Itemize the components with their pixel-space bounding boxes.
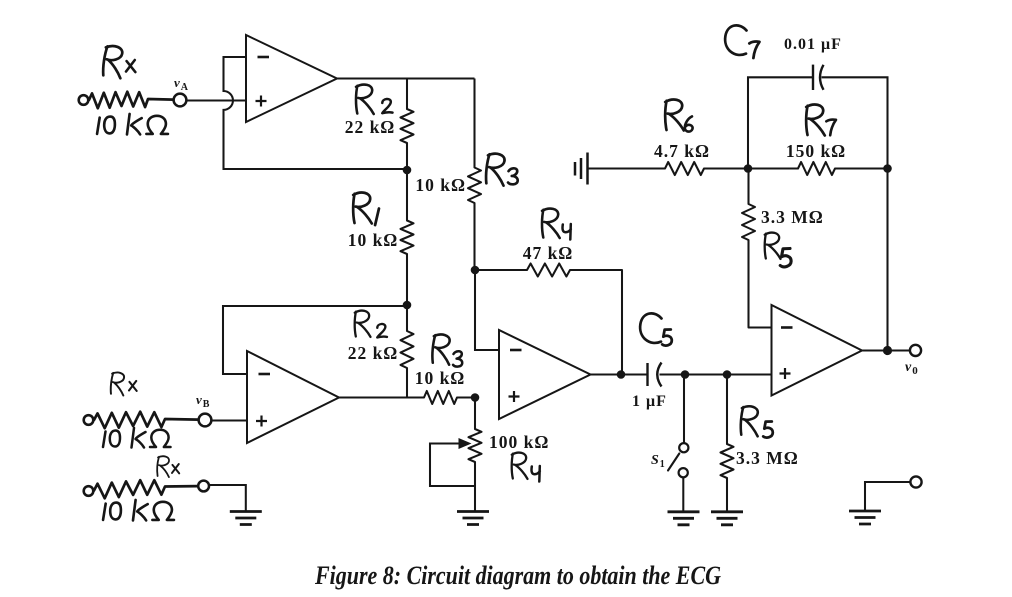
svg-text:47 kΩ: 47 kΩ (523, 243, 574, 263)
label R5 bottom (740, 406, 760, 437)
resistor R5 (3.3 M) top (742, 169, 772, 328)
svg-text:0.01 μF: 0.01 μF (784, 36, 842, 53)
switch S1 (683, 375, 685, 443)
node U4 output (883, 346, 892, 355)
ground (reference input) (230, 512, 262, 525)
wire U1 feedback with hop (224, 57, 408, 169)
terminal input B (84, 415, 94, 425)
terminal input ref (84, 486, 94, 496)
resistor R1 (10 k) (401, 170, 414, 305)
label R7 (806, 105, 825, 136)
node R3/R4/U3- junction (471, 266, 480, 275)
resistor R3 (10 k) top (468, 79, 481, 271)
op-amp U4 (772, 305, 863, 396)
potentiometer R4 (100 k) (469, 398, 482, 512)
ground (R5) (711, 512, 743, 525)
label R1 (353, 193, 372, 224)
capacitor C7 (0.01 uF) (812, 65, 814, 90)
svg-text:4.7 kΩ: 4.7 kΩ (654, 141, 710, 161)
wire C7 right column down to U4 output (822, 77, 888, 350)
svg-text:22 kΩ: 22 kΩ (348, 343, 399, 363)
svg-text:10 kΩ: 10 kΩ (348, 230, 399, 250)
terminal v0 (910, 345, 921, 356)
label Rx (input B) (110, 372, 126, 396)
label Rx (input A) (102, 45, 125, 78)
wire C7 left column (748, 77, 813, 168)
wire C5 to U4 + input (660, 373, 772, 375)
svg-text:1 μF: 1 μF (632, 393, 667, 410)
svg-text:3.3 MΩ: 3.3 MΩ (761, 207, 824, 227)
label R3 bottom (431, 334, 451, 365)
wire U4 output to v0 (862, 349, 910, 351)
label R3 top (485, 153, 507, 186)
svg-text:v0: v0 (905, 360, 919, 377)
label C5 (640, 313, 661, 343)
wire bottom-right terminal to ground (865, 482, 910, 511)
label R2 bottom (355, 311, 371, 337)
wire U3 output (591, 373, 648, 375)
wire vB to U2 + input (212, 419, 248, 421)
label R5 top (765, 233, 781, 259)
wire vA to U1 + input (187, 99, 247, 101)
label 10 kOhm (input B) (103, 428, 171, 448)
ground (sideways, R6) (575, 153, 588, 185)
svg-text:vA: vA (174, 75, 189, 93)
svg-text:150 kΩ: 150 kΩ (786, 141, 846, 161)
node after C5 (681, 370, 690, 379)
label C7 (725, 25, 746, 55)
op-amp U2 (247, 351, 339, 443)
terminal input A (79, 95, 89, 105)
pot wiper short (430, 444, 475, 487)
label R6 (665, 100, 684, 131)
node R7 right junction (883, 164, 892, 173)
op-amp U1 (246, 35, 337, 122)
capacitor C5 (1 uF) (646, 363, 648, 386)
wire U2 feedback to R1/R2 node (223, 306, 407, 374)
ground (S1) (668, 512, 700, 525)
label Rx (input ref) (157, 456, 171, 477)
svg-text:vB: vB (196, 392, 210, 410)
node U3 + input (471, 393, 480, 402)
wire R3/R4 node to U3 - input (475, 270, 499, 350)
node vA terminal (174, 94, 187, 107)
label 10 kOhm (input A) (97, 114, 168, 134)
svg-text:S1: S1 (651, 453, 666, 470)
wire ref terminal to ground (209, 485, 246, 511)
svg-text:100 kΩ: 100 kΩ (489, 432, 549, 452)
resistor R2 (22 k) top (401, 79, 414, 171)
terminal bottom-right (910, 476, 921, 487)
svg-text:22 kΩ: 22 kΩ (345, 117, 396, 137)
ground (pot) (457, 512, 489, 525)
resistor R5 (3.3 M) bottom (721, 375, 734, 512)
resistor Rx (input A) (89, 92, 173, 109)
label R4 pot (512, 453, 528, 479)
resistor R2 (22 k) bottom (401, 305, 414, 398)
resistor R4 (47 k) feedback (475, 264, 622, 375)
svg-text:10 kΩ: 10 kΩ (415, 175, 466, 195)
resistor Rx (reference) (94, 480, 197, 498)
svg-text:Figure 8: Circuit diagram to o: Figure 8: Circuit diagram to obtain the … (314, 561, 721, 590)
op-amp U3 (499, 330, 591, 419)
resistor R7 (150 k) (748, 162, 888, 175)
resistor R3 (10 k) bottom + wire U2 out (339, 391, 475, 404)
svg-text:3.3 MΩ: 3.3 MΩ (736, 448, 799, 468)
node R2/R1 junction (403, 166, 412, 175)
label 10 kOhm (input ref) (103, 500, 174, 520)
label R4 feedback (542, 209, 560, 238)
node vB terminal (199, 414, 212, 427)
node R6/R7/C7/R5 junction (744, 164, 753, 173)
svg-text:10 kΩ: 10 kΩ (415, 368, 466, 388)
node R5 top-of-branch (723, 370, 732, 379)
label R2 top (356, 85, 374, 114)
node U3 output (617, 370, 626, 379)
resistor Rx (input B) (94, 412, 199, 429)
ground (bottom-right) (849, 511, 881, 524)
terminal Rx ref right (198, 481, 209, 492)
wire U1 output to R3 column (337, 77, 475, 79)
node R1/R2 junction (403, 301, 412, 310)
resistor R6 (4.7 k) (588, 162, 749, 175)
